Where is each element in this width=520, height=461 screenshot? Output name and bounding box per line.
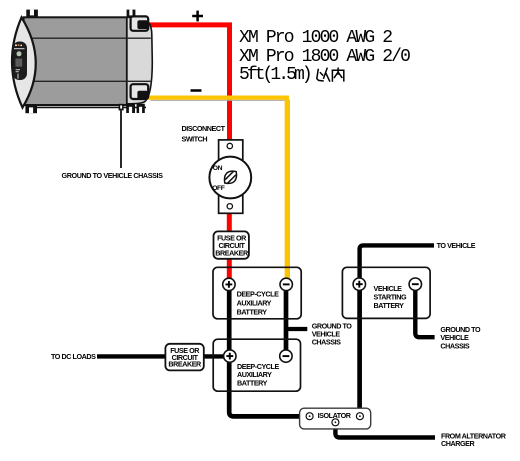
- right end cap: [127, 17, 152, 104]
- inverter U1: [12, 10, 152, 114]
- svg-text:ISOLATOR: ISOLATOR: [318, 411, 352, 420]
- mounting tab top-left: [26, 10, 38, 18]
- svg-text:BATTERY: BATTERY: [237, 378, 268, 387]
- wire: yellow negative from inverter to battery B1 negative: [137, 98, 289, 278]
- wire: B1- to B2-: [284, 284, 289, 356]
- wire: red positive from inverter to disconnect switch: [139, 25, 230, 146]
- wire: vehicle battery - to ground chassis right: [415, 284, 434, 337]
- svg-text:SWITCH: SWITCH: [182, 135, 208, 144]
- svg-text:BREAKER: BREAKER: [215, 248, 249, 257]
- chassis ground lug: [119, 104, 124, 111]
- svg-text:DEEP-CYCLE: DEEP-CYCLE: [237, 290, 279, 299]
- wire: ground stub middle: [286, 327, 307, 331]
- body separation lines: [25, 38, 152, 81]
- wire: B1+ to B2+ to isolator left terminal: [229, 284, 308, 416]
- battery B1: deep-cycle auxiliary battery: [213, 267, 301, 319]
- battery B2: deep-cycle auxiliary battery: [213, 339, 300, 391]
- knob: [221, 168, 240, 187]
- wire: red from disconnect switch to battery B1 positive: [227, 206, 232, 284]
- text: kanji 以内: [317, 68, 344, 81]
- terminal bottom: [227, 204, 232, 209]
- label: FROM ALTERNATOR CHARGER: [441, 431, 507, 448]
- svg-text:CHARGER: CHARGER: [441, 439, 475, 448]
- svg-text:XM Pro 1000 AWG 2: XM Pro 1000 AWG 2: [239, 28, 392, 48]
- label: DISCONNECT SWITCH: [182, 124, 226, 144]
- disconnect switch S1: [209, 140, 251, 213]
- svg-text:CHASSIS: CHASSIS: [440, 341, 469, 350]
- fuse F2: fuse or circuit breaker box: [165, 344, 203, 371]
- isolator: [300, 408, 371, 429]
- svg-text:CHASSIS: CHASSIS: [312, 337, 341, 346]
- mounting tabs bottom-right: [126, 104, 135, 113]
- fuse F1: fuse or circuit breaker box: [214, 231, 249, 258]
- wire: inverter chassis ground: [120, 110, 122, 168]
- control panel: [13, 42, 27, 81]
- label: plus sign: [192, 11, 203, 22]
- terminal block positive: [131, 16, 149, 30]
- svg-text:BATTERY: BATTERY: [374, 301, 405, 310]
- label: GROUND TO VEHICLE CHASSIS (right): [440, 325, 481, 350]
- svg-text:5ft(1.5m): 5ft(1.5m): [239, 65, 310, 85]
- bottom thin strip: [30, 106, 146, 108]
- label: TO VEHICLE: [437, 241, 476, 250]
- svg-text:AUXILIARY: AUXILIARY: [237, 299, 272, 308]
- front face ellipse: [12, 17, 36, 107]
- mounting tab bottom-left: [25, 105, 37, 114]
- label: GROUND TO VEHICLE CHASSIS (left): [62, 171, 164, 180]
- text: XM Pro cable gauge note: [239, 28, 410, 85]
- label: minus sign: [191, 89, 202, 92]
- battery B3: vehicle starting battery: [342, 267, 430, 318]
- svg-text:TO DC LOADS: TO DC LOADS: [51, 352, 96, 361]
- label: GROUND TO VEHICLE CHASSIS (middle): [312, 321, 353, 346]
- svg-text:GROUND TO VEHICLE CHASSIS: GROUND TO VEHICLE CHASSIS: [62, 171, 164, 180]
- svg-text:XM Pro 1800 AWG 2/0: XM Pro 1800 AWG 2/0: [239, 47, 410, 67]
- svg-text:BREAKER: BREAKER: [168, 359, 202, 368]
- svg-text:DISCONNECT: DISCONNECT: [182, 124, 226, 133]
- body main: [24, 17, 127, 105]
- svg-text:ON: ON: [213, 165, 223, 172]
- terminal top: [227, 143, 232, 148]
- svg-text:TO VEHICLE: TO VEHICLE: [437, 241, 476, 250]
- wire: isolator bottom to alternator charger: [335, 425, 435, 438]
- wire: vehicle battery + up to TO VEHICLE: [360, 245, 434, 284]
- mounting tab top-right: [127, 10, 136, 18]
- svg-text:BATTERY: BATTERY: [237, 308, 268, 317]
- wire: vehicle battery + down to isolator right terminal: [357, 284, 362, 414]
- svg-text:OFF: OFF: [212, 185, 225, 192]
- wire: DC loads to B2+: [97, 354, 226, 358]
- terminal block negative: [131, 84, 149, 99]
- label: TO DC LOADS: [51, 352, 96, 361]
